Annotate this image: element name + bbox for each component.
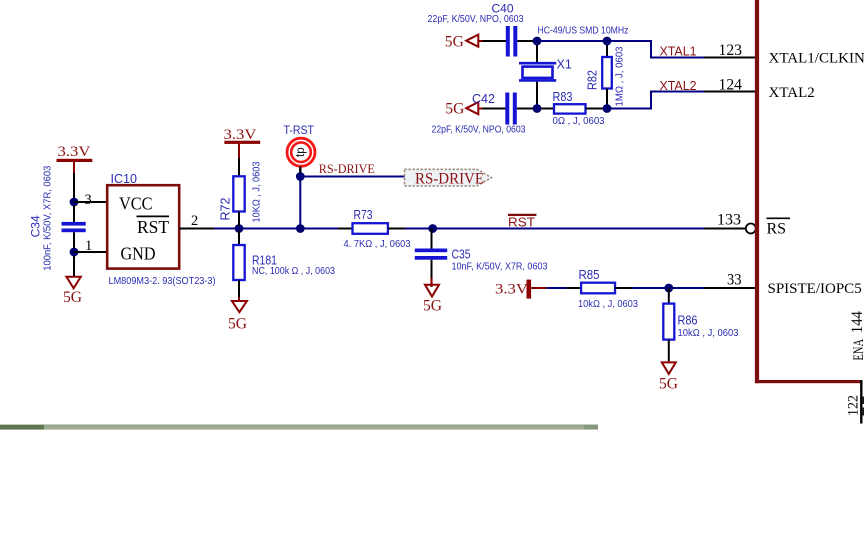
scrollbar strip light segment [44, 425, 598, 430]
svg-text:R83: R83 [553, 90, 573, 104]
wire C40 right lead [517, 40, 533, 42]
svg-text:ENA: ENA [851, 339, 864, 361]
svg-text:10kΩ , J, 0603: 10kΩ , J, 0603 [678, 327, 739, 339]
svg-text:XTAL2: XTAL2 [660, 78, 697, 93]
node junction RST/T-RST [296, 224, 305, 233]
ground 5G below R86 [659, 361, 678, 392]
svg-text:C42: C42 [472, 92, 495, 106]
svg-text:XTAL1: XTAL1 [660, 44, 697, 59]
scrollbar strip dark segment [0, 425, 44, 430]
svg-text:GND: GND [121, 244, 156, 264]
wire T-RST drop to RST net [299, 177, 301, 229]
test point T-RST [284, 123, 316, 173]
wire C42 right lead [517, 108, 533, 110]
wire R73 left lead [338, 228, 353, 230]
wire 5G stub to C40 (dark red) [478, 40, 482, 42]
capacitor C42 [432, 92, 526, 136]
crystal X1 [519, 45, 572, 105]
net label RST [508, 215, 537, 230]
node junction GND [70, 248, 79, 257]
svg-text:3: 3 [85, 192, 92, 208]
svg-text:10kΩ , J, 0603: 10kΩ , J, 0603 [578, 298, 638, 310]
svg-text:T-RST: T-RST [284, 123, 315, 137]
svg-text:2: 2 [191, 213, 198, 229]
power 3.3V for R72 [224, 127, 261, 176]
op-amp IC10 body [107, 172, 215, 287]
svg-text:100nF, K/50V, X7R, 0603: 100nF, K/50V, X7R, 0603 [42, 166, 54, 271]
svg-text:C35: C35 [452, 247, 471, 262]
svg-text:22pF, K/50V, NPO, 0603: 22pF, K/50V, NPO, 0603 [428, 13, 524, 25]
svg-text:HC-49/US SMD 10MHz: HC-49/US SMD 10MHz [538, 25, 629, 37]
svg-text:1: 1 [85, 238, 92, 254]
ground 5G below R181 [228, 301, 247, 333]
svg-text:124: 124 [719, 77, 743, 94]
pin 2 wire [179, 213, 214, 229]
pin 121 sliver at canvas edge [863, 397, 864, 405]
resistor R73 [344, 208, 411, 250]
svg-text:R85: R85 [579, 268, 600, 282]
svg-text:3.3V: 3.3V [224, 127, 257, 143]
ground 5G at C40 [445, 33, 479, 50]
svg-text:XTAL1/CLKIN: XTAL1/CLKIN [769, 51, 864, 67]
svg-text:4. 7KΩ , J, 0603: 4. 7KΩ , J, 0603 [344, 238, 411, 250]
svg-text:1MΩ , J, 0603: 1MΩ , J, 0603 [614, 46, 626, 106]
wire RST net (left run) [214, 228, 338, 230]
wire XTAL2 net to pin [611, 92, 704, 109]
chip left edge [755, 0, 759, 383]
svg-text:RS: RS [767, 221, 787, 238]
svg-text:5G: 5G [63, 289, 82, 306]
resistor R85 [578, 268, 638, 310]
svg-text:X1: X1 [557, 58, 572, 72]
svg-text:5G: 5G [659, 375, 678, 392]
svg-text:RS-DRIVE: RS-DRIVE [319, 161, 375, 176]
svg-text:VCC: VCC [119, 194, 153, 214]
svg-text:133: 133 [717, 212, 741, 229]
svg-text:144: 144 [849, 311, 864, 333]
svg-text:tp: tp [295, 147, 307, 157]
svg-text:3.3V: 3.3V [495, 282, 528, 298]
wire 3.3V to R85 [546, 287, 581, 289]
svg-text:R73: R73 [354, 208, 373, 222]
node junction top of R82 [603, 37, 612, 46]
off-page connector RS-DRIVE [405, 169, 492, 187]
node junction R72/R181 [235, 224, 244, 233]
resistor R86 [663, 288, 738, 361]
node junction R86 tap [664, 284, 673, 293]
svg-text:5G: 5G [445, 101, 464, 118]
capacitor C34 [29, 166, 86, 271]
wire RST net (right run) [405, 228, 704, 230]
wire C40 left lead [483, 40, 507, 42]
resistor R72 [219, 161, 263, 226]
capacitor C40 [428, 2, 524, 57]
ground 5G below C35 [423, 278, 442, 315]
wire XTAL1 net to pin [611, 41, 704, 58]
svg-text:0Ω , J, 0603: 0Ω , J, 0603 [553, 115, 605, 127]
resistor R83 [553, 90, 605, 127]
chip bottom edge [755, 380, 861, 383]
capacitor C35 [415, 229, 548, 280]
svg-text:LM809M3-2. 93(SOT23-3): LM809M3-2. 93(SOT23-3) [109, 275, 216, 287]
svg-text:5G: 5G [445, 33, 464, 50]
pin 3 wire [74, 192, 108, 208]
svg-text:5G: 5G [423, 298, 442, 315]
pin 1 wire [74, 238, 108, 254]
svg-text:XTAL2: XTAL2 [769, 85, 815, 101]
wire 5G stub to C42 (dark red) [478, 108, 482, 110]
svg-text:R82: R82 [586, 70, 600, 90]
ground 5G below C34 [63, 256, 82, 306]
power 3.3V for IC10 [57, 144, 93, 198]
pin 123 XTAL1/CLKIN [704, 42, 864, 67]
svg-text:122: 122 [846, 395, 862, 416]
resistor R82 [586, 45, 626, 107]
power 3.3V for R85 [495, 280, 546, 299]
wire RS-DRIVE net [300, 176, 404, 178]
svg-text:R86: R86 [678, 314, 698, 328]
wire R85 right lead [615, 287, 704, 289]
ground 5G at C42 [445, 101, 478, 118]
svg-text:RST: RST [137, 217, 169, 237]
svg-text:22pF, K/50V, NPO, 0603: 22pF, K/50V, NPO, 0603 [432, 124, 526, 136]
pin 133 RS [704, 212, 790, 238]
svg-text:10KΩ , J, 0603: 10KΩ , J, 0603 [251, 161, 263, 222]
wire R83 right lead [586, 108, 604, 110]
svg-text:3.3V: 3.3V [58, 144, 91, 160]
resistor R181 [233, 231, 335, 301]
pin 122 (bottom edge) [846, 380, 862, 424]
node junction VCC [70, 198, 79, 207]
wire top between junctions [541, 40, 603, 42]
svg-text:10nF, K/50V, X7R, 0603: 10nF, K/50V, X7R, 0603 [452, 261, 548, 273]
svg-text:123: 123 [719, 42, 743, 59]
svg-text:SPISTE/IOPC5: SPISTE/IOPC5 [768, 281, 862, 297]
wire C42 left lead [483, 108, 506, 110]
node junction bottom of X1 [533, 104, 542, 113]
wire R83 left lead [541, 108, 554, 110]
node junction C35 tap [428, 224, 437, 233]
svg-text:RST: RST [508, 215, 535, 230]
wire R73 right lead [388, 228, 405, 230]
node junction RS-DRIVE tap [296, 172, 305, 181]
svg-text:C34: C34 [29, 215, 43, 237]
svg-text:5G: 5G [228, 316, 247, 333]
svg-text:RS-DRIVE: RS-DRIVE [415, 171, 484, 188]
node junction top-left of X1 [533, 37, 542, 46]
pin 144 ENA (rotated labels) [849, 311, 864, 361]
svg-text:R72: R72 [219, 198, 233, 221]
pin 33 SPISTE/IOPC5 [704, 272, 862, 298]
svg-text:33: 33 [727, 272, 742, 289]
svg-text:IC10: IC10 [111, 172, 137, 186]
node junction bottom of R82 [603, 104, 612, 113]
pin 124 XTAL2 [704, 77, 815, 102]
svg-text:NC, 100k Ω , J, 0603: NC, 100k Ω , J, 0603 [252, 265, 335, 277]
